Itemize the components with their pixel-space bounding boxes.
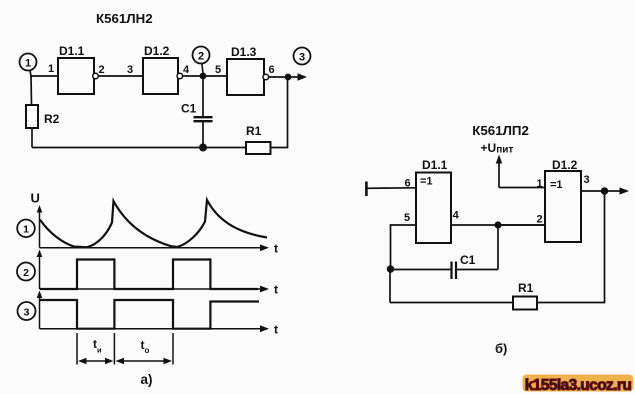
junction output right — [601, 187, 609, 195]
svg-text:t: t — [274, 283, 278, 297]
svg-text:2: 2 — [99, 64, 105, 76]
svg-text:6: 6 — [269, 64, 275, 76]
svg-text:а): а) — [141, 372, 153, 387]
waveform 1 — [40, 200, 267, 247]
svg-text:5: 5 — [404, 212, 410, 224]
capacitor C1 — [181, 76, 213, 148]
svg-text:3: 3 — [299, 52, 305, 64]
svg-text:=1: =1 — [420, 176, 433, 188]
wire D1.1 out to D1.2 in — [98, 75, 143, 77]
junction output — [285, 74, 292, 81]
svg-text:2: 2 — [23, 267, 29, 279]
waveform 3 — [40, 300, 259, 329]
svg-text:К561ЛН2: К561ЛН2 — [96, 11, 153, 26]
svg-text:U: U — [31, 191, 40, 206]
waveform 2 — [40, 260, 258, 290]
wire pin3 out — [581, 190, 605, 192]
svg-text:1: 1 — [25, 58, 31, 70]
gate D1.2 — [537, 158, 590, 242]
arrow t_o — [116, 338, 173, 364]
junction bottom — [199, 144, 207, 152]
svg-text:б): б) — [495, 341, 507, 356]
resistor R2 — [26, 76, 60, 148]
wire pin5 — [391, 225, 417, 269]
node 3 — [294, 48, 311, 65]
node label 2 — [17, 263, 35, 281]
svg-text:R1: R1 — [246, 124, 262, 138]
node label 1 — [17, 220, 35, 238]
svg-text:D1.3: D1.3 — [231, 45, 257, 59]
gate D1.1 — [404, 158, 460, 243]
resistor R1 — [246, 124, 271, 154]
wire pin4 to pin2 — [451, 224, 545, 226]
junction left — [387, 265, 395, 273]
svg-text:2: 2 — [198, 51, 204, 63]
wire R1 to output — [271, 77, 288, 148]
watermark k155la3.ucoz.ru — [523, 375, 634, 394]
svg-text:1: 1 — [48, 63, 54, 75]
svg-text:R1: R1 — [518, 281, 534, 295]
svg-text:k155la3.ucoz.ru: k155la3.ucoz.ru — [525, 377, 632, 394]
svg-text:6: 6 — [405, 178, 411, 190]
wire left down to bottom — [389, 269, 391, 303]
inverter D1.3 — [215, 45, 275, 95]
svg-text:D1.1: D1.1 — [422, 158, 448, 172]
svg-text:4: 4 — [453, 210, 460, 222]
tick lines — [77, 333, 173, 365]
output arrow right — [605, 187, 630, 194]
input stub — [366, 182, 416, 197]
svg-text:3: 3 — [584, 174, 590, 186]
svg-text:C1: C1 — [460, 253, 476, 267]
svg-text:D1.1: D1.1 — [59, 44, 85, 58]
svg-text:5: 5 — [215, 64, 221, 76]
svg-text:3: 3 — [127, 64, 133, 76]
output arrow — [288, 73, 307, 80]
axis 3 — [37, 291, 278, 337]
bottom wire left — [390, 302, 513, 304]
wire junction down to C1 — [497, 225, 499, 270]
resistor R1 (right) — [513, 281, 537, 310]
svg-text:D1.2: D1.2 — [552, 158, 578, 172]
wire D1.2 out to D1.3 in — [183, 75, 227, 77]
svg-text:1: 1 — [23, 224, 29, 236]
bottom wire right — [537, 191, 605, 303]
svg-text:C1: C1 — [181, 102, 197, 116]
svg-text:4: 4 — [183, 64, 190, 76]
svg-text:t: t — [274, 242, 278, 256]
capacitor C1 (right) — [391, 253, 498, 279]
axis 2 — [37, 250, 278, 297]
svg-text:D1.2: D1.2 — [144, 44, 170, 58]
arrow t_i — [78, 337, 113, 364]
wire power to pin1 — [499, 187, 545, 189]
svg-text:t: t — [274, 323, 278, 337]
bottom wire — [32, 147, 246, 149]
junction node2 — [200, 73, 207, 80]
axis 1 — [37, 205, 278, 256]
wire pin2 — [498, 224, 545, 226]
svg-text:2: 2 — [537, 214, 543, 226]
inverter D1.2 — [127, 44, 190, 94]
svg-text:R2: R2 — [44, 112, 60, 126]
svg-text:=1: =1 — [550, 179, 563, 191]
junction mid — [494, 221, 501, 228]
svg-text:К561ЛП2: К561ЛП2 — [472, 123, 529, 138]
wire D1.3 out — [269, 76, 288, 78]
power +Upit — [481, 141, 514, 188]
inverter D1.1 — [48, 44, 105, 94]
node 2 — [193, 47, 210, 75]
svg-text:3: 3 — [24, 306, 30, 318]
wire node1 to D1.1 input — [30, 71, 58, 77]
node 1 — [20, 54, 37, 71]
node label 3 — [18, 302, 36, 320]
